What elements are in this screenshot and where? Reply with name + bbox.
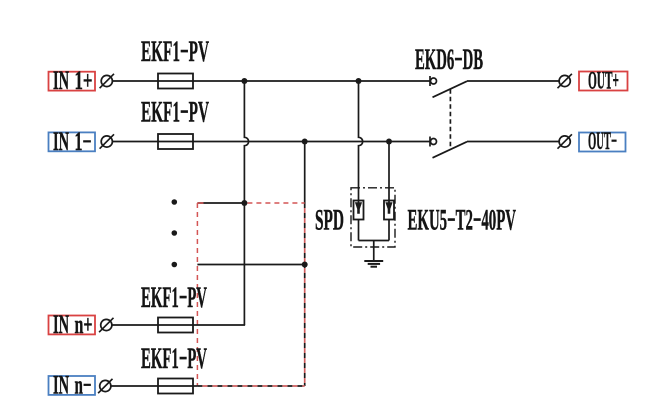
terminal label box OUT- [579,128,626,155]
wire F4 to -bus corner (alternating red/black dashes) [193,385,305,387]
junction dot row1 / SPD left [356,78,362,84]
switch S1a blade (row1) [433,81,468,97]
svg-text:IN: IN [53,66,69,95]
svg-text:EKU5−T2−40PV: EKU5−T2−40PV [408,204,517,237]
+bus vertical wire with hop over row2 [244,81,248,325]
junction dot row2 / -bus [302,139,308,145]
svg-text:EKD6−DB: EKD6−DB [415,43,483,76]
terminal label box IN 1- [49,127,96,156]
svg-text:IN: IN [53,310,69,339]
terminal label box OUT+ [579,68,628,95]
junction dot -bus / mid channel line [302,262,308,268]
switch S1a fixed contact (row1) [430,76,437,86]
wire IN1+ terminal to fuse F1 [112,80,158,82]
SPD left element bottom wire [358,220,360,241]
junction dot row2 / SPD right [386,139,392,145]
wire switch S1b to OUT- terminal [467,141,559,143]
terminal circle IN 1- [100,134,114,148]
SPD varistor element right (U1b) [384,201,394,220]
svg-text:EKF1−PV: EKF1−PV [141,342,207,375]
wire F3 to +bus corner [193,324,245,326]
SPD dash-dot enclosure box [351,188,395,247]
-bus vertical wire (alternating red/black dashes below node) [304,142,306,387]
terminal circle IN 1+ [100,74,114,88]
SPD right leg wire [388,142,390,203]
svg-text:IN: IN [53,127,69,156]
svg-text:EKF1−PV: EKF1−PV [141,96,209,129]
wire INn- terminal to fuse F4 [111,385,158,387]
svg-text:1+: 1+ [75,66,93,95]
svg-text:1−: 1− [75,127,92,156]
SPD left leg wire with hop over row2 [359,81,363,203]
fuse F4 (EKF1-PV) row n- [158,379,193,394]
switch mechanical link (dashed) [449,89,451,150]
wire IN1- terminal to fuse F2 [112,141,158,143]
channel j - wire (black segment) [197,264,304,266]
terminal circle IN n- [98,379,112,393]
junction dot row1 / +bus [241,78,247,84]
svg-text:OUT+: OUT+ [588,68,619,95]
terminal circle OUT+ [558,74,572,88]
svg-text:n+: n+ [75,310,93,339]
wire INn+ terminal to fuse F3 [112,324,158,326]
wire F1 to switch contact (row1 bus) [193,80,430,82]
wire SPD to ground [373,241,375,262]
terminal label box IN n+ [49,310,96,339]
svg-text:IN: IN [53,371,69,400]
fuse F1 (EKF1-PV) row 1 [158,74,193,89]
ground symbol [364,261,383,267]
junction dot +bus / red channel line [241,200,247,206]
terminal circle OUT- [558,134,572,148]
svg-text:EKF1−PV: EKF1−PV [141,35,209,68]
wire switch S1a to OUT+ terminal [467,80,559,82]
switch S1b blade (row2) [433,142,468,158]
wire F2 to switch contact (row2 bus) [193,141,430,143]
channel i + wire (black segment) [197,202,244,204]
red dashed channel-n loop: left edge [196,203,198,386]
switch S1b fixed contact (row2) [430,137,437,147]
svg-text:SPD: SPD [315,204,344,237]
svg-text:OUT−: OUT− [588,128,617,155]
fuse F3 (EKF1-PV) row n+ [158,318,193,333]
ellipsis dots (repeated channels) [172,199,178,267]
fuse F2 (EKF1-PV) row 2 [158,134,193,149]
terminal label box IN n- [49,371,96,400]
terminal circle IN n+ [99,318,113,332]
SPD common bottom wire [359,240,390,242]
red dashed channel-n loop: top edge [197,202,304,204]
SPD varistor element left (U1a) [354,201,364,220]
svg-text:EKF1−PV: EKF1−PV [141,281,207,314]
terminal label box IN 1+ [49,66,96,95]
svg-text:n−: n− [75,371,92,400]
SPD right element bottom wire [388,220,390,241]
